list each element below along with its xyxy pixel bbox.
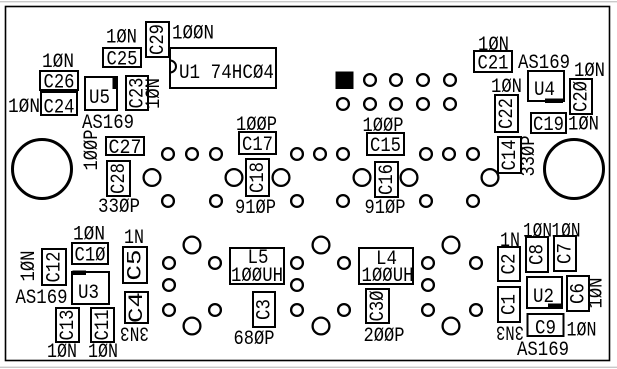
pad TP2 <box>273 169 290 186</box>
via row A1 <box>162 148 174 160</box>
svg-text:1ØN: 1ØN <box>18 251 41 282</box>
capacitor C18 <box>246 159 270 196</box>
svg-text:C17: C17 <box>242 134 273 157</box>
via row B4 <box>337 195 349 207</box>
svg-text:C28: C28 <box>108 163 131 194</box>
connector pad P2 <box>482 169 499 186</box>
svg-text:1ØN: 1ØN <box>106 27 137 50</box>
svg-text:C1: C1 <box>499 294 522 315</box>
svg-text:C7: C7 <box>555 243 578 264</box>
capacitor C28 <box>107 161 131 196</box>
svg-text:C22: C22 <box>496 98 519 129</box>
capacitor C8 <box>526 237 550 272</box>
capacitor C17 <box>239 132 276 157</box>
capacitor C7 <box>554 236 578 271</box>
via row A5 <box>314 148 326 160</box>
via (215,310) <box>209 304 221 316</box>
pin header J1 pin 4 <box>364 98 376 110</box>
svg-text:C26: C26 <box>44 71 75 94</box>
via row B5 <box>420 195 432 207</box>
RF switch U4 <box>528 71 564 103</box>
svg-text:91ØP: 91ØP <box>365 197 406 220</box>
via row A7 <box>420 148 432 160</box>
capacitor C29 <box>146 22 170 57</box>
via (428,285) <box>422 279 434 291</box>
IC U1 74HC04 <box>170 48 276 88</box>
svg-text:C2Ø: C2Ø <box>571 81 594 112</box>
capacitor C14 <box>498 137 522 173</box>
capacitor C21 <box>474 51 512 75</box>
mounting hole right <box>545 140 604 199</box>
pad TP1 <box>226 169 243 186</box>
svg-text:1ØØUH: 1ØØUH <box>231 265 283 288</box>
RF switch U5 <box>85 77 117 110</box>
pad G1 bottom <box>184 318 201 335</box>
svg-text:1N: 1N <box>500 230 520 253</box>
capacitor C4 <box>125 292 149 323</box>
connector pad P1 <box>144 169 161 186</box>
svg-text:C9: C9 <box>535 318 556 341</box>
via (476,263) <box>470 257 482 269</box>
svg-text:C5: C5 <box>125 250 148 281</box>
svg-text:C13: C13 <box>57 310 80 341</box>
via (169,310) <box>163 304 175 316</box>
svg-text:68ØP: 68ØP <box>234 328 275 351</box>
RF switch U3 <box>72 271 109 306</box>
capacitor C3 <box>253 292 277 327</box>
svg-text:1ØN: 1ØN <box>88 341 118 364</box>
pin header J1 pin 5 <box>390 74 402 86</box>
svg-text:C27: C27 <box>109 137 142 160</box>
capacitor C26 <box>40 71 78 94</box>
via (215,263) <box>209 257 221 269</box>
svg-text:C1Ø: C1Ø <box>75 244 106 267</box>
svg-text:C3: C3 <box>254 299 277 320</box>
capacitor C1 <box>498 287 522 322</box>
via (476,310) <box>470 304 482 316</box>
capacitor C15 <box>367 133 404 158</box>
svg-text:C3Ø: C3Ø <box>367 291 390 322</box>
svg-text:C11: C11 <box>92 310 115 341</box>
svg-text:C29: C29 <box>147 24 170 55</box>
via row A6 <box>337 148 349 160</box>
via (297,285) <box>291 279 303 291</box>
svg-text:33ØP: 33ØP <box>518 136 541 177</box>
svg-text:C25: C25 <box>107 48 138 71</box>
pad G2 top <box>313 237 330 254</box>
RF switch U2 <box>527 277 562 309</box>
svg-text:C24: C24 <box>44 96 75 119</box>
capacitor C19 <box>531 113 566 137</box>
capacitor C22 <box>495 95 519 132</box>
via (344,310) <box>338 304 350 316</box>
pin header J1 pin 1 (square pad) <box>337 73 353 89</box>
screenshot top edge artifact <box>0 1 617 2</box>
capacitor C24 <box>41 92 77 119</box>
inductor L4 <box>359 248 414 288</box>
pad TP3 <box>354 169 371 186</box>
via row A8 <box>443 148 455 160</box>
capacitor C5 <box>123 247 148 283</box>
capacitor C1Ø <box>72 243 108 267</box>
via (297,310) <box>291 304 303 316</box>
svg-text:1ØN: 1ØN <box>586 278 609 309</box>
capacitor C25 <box>103 48 141 71</box>
capacitor C16 <box>375 162 399 197</box>
svg-text:C19: C19 <box>533 114 564 137</box>
svg-text:C12: C12 <box>44 252 67 283</box>
svg-text:1ØN: 1ØN <box>568 114 599 137</box>
pin header J1 pin 6 <box>390 98 402 110</box>
pad G3 bottom <box>443 318 460 335</box>
via (428,263) <box>422 257 434 269</box>
svg-text:2ØØP: 2ØØP <box>364 325 405 348</box>
via row A2 <box>186 148 198 160</box>
inductor L5 <box>230 247 284 288</box>
svg-text:91ØP: 91ØP <box>235 197 276 220</box>
svg-text:1ØN: 1ØN <box>567 320 597 343</box>
capacitor C9 <box>528 314 564 341</box>
pin header J1 pin 8 <box>417 98 429 110</box>
via (169,285) <box>163 279 175 291</box>
via row B3 <box>291 195 303 207</box>
svg-text:1ØN: 1ØN <box>8 96 40 119</box>
capacitor C23 <box>126 76 150 110</box>
svg-text:1ØN: 1ØN <box>47 341 77 364</box>
pin header J1 pin 9 <box>444 74 456 86</box>
svg-text:33ØP: 33ØP <box>98 196 140 219</box>
svg-text:1ØØN: 1ØØN <box>172 23 214 46</box>
svg-text:AS169: AS169 <box>517 339 569 362</box>
via row A4 <box>291 148 303 160</box>
capacitor C2Ø <box>570 79 594 114</box>
capacitor C2 <box>498 247 522 281</box>
svg-text:C8: C8 <box>527 244 550 265</box>
svg-text:U1 74HCØ4: U1 74HCØ4 <box>179 62 274 85</box>
capacitor C6 <box>567 276 591 311</box>
capacitor C12 <box>42 249 67 285</box>
svg-text:1ØØUH: 1ØØUH <box>362 265 414 288</box>
pin header J1 pin 7 <box>417 74 429 86</box>
pin header J1 pin 3 <box>364 74 376 86</box>
via (344,263) <box>338 257 350 269</box>
svg-text:C2: C2 <box>499 254 522 275</box>
screenshot bottom edge artifact <box>0 367 617 368</box>
capacitor C3Ø <box>366 289 390 323</box>
pad G2 bottom <box>313 318 330 335</box>
svg-text:C21: C21 <box>478 52 509 75</box>
pad G3 top <box>443 237 460 254</box>
capacitor C27 <box>106 137 144 160</box>
svg-text:C16: C16 <box>376 164 399 195</box>
pad G1 top <box>184 237 201 254</box>
via row A3 <box>210 148 222 160</box>
svg-text:C18: C18 <box>247 162 270 193</box>
via (169,263) <box>163 257 175 269</box>
via (297,263) <box>291 257 303 269</box>
via row B1 <box>162 195 174 207</box>
mounting hole left <box>13 140 72 199</box>
pad TP4 <box>401 169 418 186</box>
svg-text:AS169: AS169 <box>16 287 68 310</box>
via row B6 <box>467 195 479 207</box>
svg-text:U3: U3 <box>78 282 99 305</box>
pin header J1 pin 2 <box>337 98 349 110</box>
capacitor C13 <box>56 308 80 342</box>
svg-text:1ØN: 1ØN <box>143 78 166 109</box>
svg-text:U5: U5 <box>89 87 110 110</box>
svg-text:3N3: 3N3 <box>120 321 149 344</box>
svg-text:C15: C15 <box>370 135 401 158</box>
capacitor C11 <box>91 308 115 342</box>
svg-text:1ØØP: 1ØØP <box>81 130 104 171</box>
svg-text:C4: C4 <box>126 292 149 323</box>
pin header J1 pin 10 <box>444 98 456 110</box>
via (428,310) <box>422 304 434 316</box>
via row A9 <box>467 148 479 160</box>
via row B2 <box>210 195 222 207</box>
